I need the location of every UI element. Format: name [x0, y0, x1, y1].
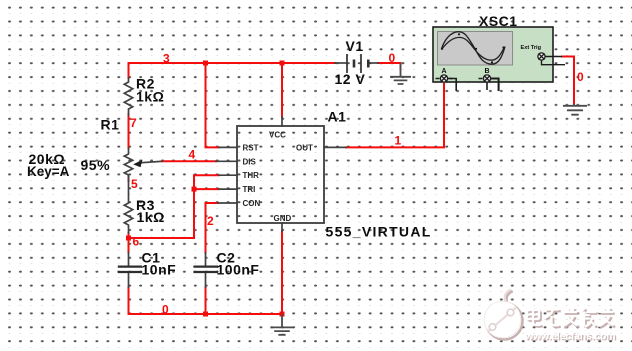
timer A1 555_VIRTUAL box: [237, 126, 324, 223]
scope trace 1: [442, 32, 506, 64]
svg-text:TRI: TRI: [243, 185, 256, 194]
battery V1 right lead: [370, 62, 379, 64]
svg-text:DIS: DIS: [243, 157, 257, 166]
wire RST from rail: [206, 63, 220, 147]
svg-text:R1: R1: [101, 117, 120, 133]
scope trace sample dots: [441, 33, 505, 63]
chip pin stub TRI: [219, 188, 237, 190]
svg-text:A: A: [442, 68, 447, 75]
potentiometer R1 arrow head: [133, 160, 142, 168]
chip pin stub OUT: [324, 146, 346, 148]
wire net5 pot to R3: [128, 176, 130, 182]
svg-text:1kΩ: 1kΩ: [136, 89, 164, 105]
junction (282,63): [280, 61, 285, 66]
potentiometer R1 body: [124, 148, 132, 181]
chip pin stub RST: [219, 146, 237, 148]
svg-text:1: 1: [395, 134, 402, 148]
scope trace 2: [442, 37, 505, 60]
wire battery to ground0: [378, 63, 401, 69]
wire net6 R3 to C1: [128, 233, 130, 253]
junction (282,314): [280, 312, 285, 317]
wire R2 top red: [128, 63, 130, 78]
wire net0 bottom rail: [129, 313, 283, 315]
svg-text:3: 3: [163, 52, 170, 66]
svg-text:RST: RST: [243, 143, 259, 152]
junction (205.5,314): [203, 312, 208, 317]
wire THR: [194, 175, 219, 189]
svg-text:6: 6: [133, 235, 140, 249]
chip pin stub VCC: [281, 117, 283, 126]
svg-text:2: 2: [207, 214, 214, 228]
svg-text:GND: GND: [274, 214, 292, 223]
oscilloscope screen: [438, 32, 513, 66]
junction (194,189): [192, 187, 197, 192]
svg-text:95%: 95%: [81, 157, 111, 173]
svg-text:100nF: 100nF: [217, 262, 260, 278]
svg-text:B: B: [485, 68, 490, 75]
junction (128.5,238): [126, 236, 131, 241]
svg-text:5: 5: [131, 177, 138, 191]
chip pin stub THR: [219, 174, 237, 176]
ground (battery, net 0): [390, 63, 411, 84]
potentiometer R1 wiper line: [139, 161, 162, 163]
wire C2 bottom: [205, 287, 207, 314]
capacitor C2 plates: [193, 267, 218, 272]
wire TRI: [194, 188, 219, 190]
wire net2 CON to C2: [206, 203, 219, 253]
svg-text:XSC1: XSC1: [479, 13, 518, 29]
capacitor C1 leads: [128, 253, 130, 288]
wire chip GND down: [281, 231, 283, 314]
resistor R3: [124, 181, 132, 233]
capacitor C1 plates: [118, 267, 142, 272]
svg-text:0: 0: [577, 70, 584, 84]
scope terminal A: [436, 75, 457, 91]
chip pin stub CON: [218, 202, 237, 204]
svg-text:1kΩ: 1kΩ: [137, 209, 165, 225]
wire ext trig to ground: [562, 57, 574, 105]
svg-text:www.elecfans.com: www.elecfans.com: [524, 330, 615, 342]
svg-text:0: 0: [389, 51, 396, 65]
svg-text:4: 4: [189, 148, 196, 162]
wire net3 top rail: [129, 62, 336, 64]
oscilloscope XSC1 body: [433, 27, 553, 82]
svg-text:10nF: 10nF: [142, 262, 177, 278]
wire net6 link to TRI: [129, 189, 195, 238]
battery V1 plates: [347, 54, 368, 73]
svg-text:V1: V1: [346, 38, 364, 54]
chip pin stub GND: [281, 223, 283, 231]
svg-text:7: 7: [130, 116, 137, 130]
chip pin stub DIS: [216, 160, 237, 162]
svg-text:VCC: VCC: [269, 131, 286, 140]
svg-text:Ext Trig: Ext Trig: [521, 45, 542, 51]
svg-text:0: 0: [162, 303, 169, 317]
svg-text:12 V: 12 V: [335, 71, 366, 87]
battery V1 left lead: [335, 62, 346, 64]
capacitor C2 leads: [205, 253, 207, 287]
wire net7 R2 bottom to pot: [128, 114, 130, 148]
svg-text:OUT: OUT: [296, 143, 313, 152]
svg-text:A1: A1: [328, 109, 347, 125]
wire VCC chip: [281, 63, 283, 117]
svg-text:555_VIRTUAL: 555_VIRTUAL: [326, 224, 432, 240]
watermark logo: [484, 290, 522, 340]
wire net4 wiper to DIS: [162, 160, 216, 162]
scope terminal B: [479, 75, 499, 91]
wire net1 OUT to scope: [346, 84, 444, 147]
svg-text:Key=A: Key=A: [27, 164, 70, 179]
scope terminal Ext Trig: [538, 53, 565, 65]
ground (chip GND rail): [271, 314, 294, 335]
junction (205.5,63): [203, 61, 208, 66]
svg-text:CON: CON: [243, 199, 261, 208]
resistor R2: [124, 78, 132, 115]
ground (scope, net 0): [563, 104, 587, 115]
svg-text:THR: THR: [243, 171, 260, 180]
wire C1 bottom: [128, 287, 130, 314]
